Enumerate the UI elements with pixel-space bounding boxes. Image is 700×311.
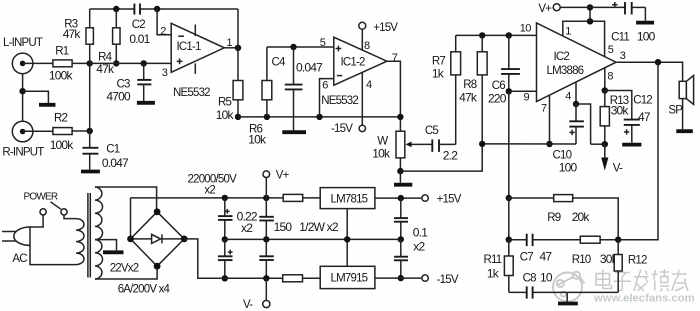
IC1-2 minus sign [337,75,342,77]
svg-text:1/2W x2: 1/2W x2 [299,220,339,234]
wire mid row left [509,239,527,241]
wire C5 to R7 [455,75,457,144]
IC1-1 plus sign [177,58,183,64]
watermark glyph fa [634,270,649,292]
node feedback top [506,195,512,201]
ground C4 [282,130,306,134]
node mid rail 0.1 [398,236,404,242]
capacitor C10 [569,104,584,144]
node pin4 [573,101,579,107]
bridge diode [131,234,185,243]
capacitor C12 [605,91,640,143]
svg-text:C8: C8 [523,272,537,284]
wire IC1-2 output [387,61,401,131]
node C4 top [290,44,296,50]
node bridge top [154,208,161,215]
svg-text:R10: R10 [572,254,591,266]
switch S1 [30,202,76,227]
wire secondary bottom to bridge [95,266,157,279]
svg-text:7: 7 [541,103,547,115]
wire sleeve to ground [23,91,49,103]
svg-text:1k: 1k [432,67,445,81]
capacitor C7 [527,234,533,246]
junction pin2 tap [154,6,160,12]
svg-text:V-: V- [243,299,253,311]
regulator LM7915 [320,266,375,288]
resistor R7 [451,35,461,75]
svg-text:10: 10 [540,270,553,284]
capacitor C1 [83,131,99,170]
node 0.22 top [263,195,269,201]
svg-text:AC: AC [12,253,27,265]
svg-text:4700: 4700 [106,90,131,104]
node R5 bottom [235,114,241,120]
svg-text:10k: 10k [372,146,391,160]
node R8 bottom [479,141,485,147]
V- terminal PSU [263,278,270,307]
capacitor C8 [527,286,533,298]
svg-text:C2: C2 [132,19,146,31]
transformer core [88,193,90,278]
node IC1-1 output [235,45,241,51]
svg-text:100: 100 [559,160,578,174]
svg-text:47: 47 [540,249,553,263]
svg-text:6: 6 [322,80,328,92]
V+ terminal PSU [263,171,270,198]
wire pin8 [604,68,606,91]
wire pin1 pin5 top [563,21,605,56]
svg-text:0.047: 0.047 [296,60,323,74]
capacitor 0.22 lower [259,239,274,278]
wire V- net right [591,143,605,145]
node V- 0.1 [398,275,404,281]
watermark glyph zi [614,273,631,291]
node V- arrow [602,141,608,147]
wire jack to R2 [23,130,53,132]
svg-text:L-INPUT: L-INPUT [3,37,43,49]
wire R2 to node B [72,130,90,132]
-15V terminal IC1-2 pin4 [359,72,365,131]
svg-text:-15V: -15V [331,123,353,135]
node output [655,59,661,65]
wire input row to pin3 [90,62,171,64]
ground SP [676,129,693,133]
wire pin9 [509,90,537,92]
+15V terminal IC1-2 pin8 [359,22,366,50]
wire L jack sleeve down [22,74,24,92]
wire sleeve to R jack [22,91,24,121]
svg-text:1: 1 [565,26,571,38]
wire feedback up [237,9,239,48]
svg-text:x2: x2 [204,185,215,197]
svg-text:2.2: 2.2 [443,148,458,162]
op-amp IC1-1 [171,23,224,72]
svg-text:C12: C12 [633,95,652,107]
svg-text:+15V: +15V [437,194,462,206]
wire bottom row left [509,291,527,293]
wire feedback top left [90,8,135,10]
wire regulators common [346,209,348,267]
watermark logo [553,272,585,302]
node W ground [397,168,403,174]
ground C12 [622,143,641,147]
node V- rail 0.22 [263,275,269,281]
wire feedback drop [508,91,510,198]
svg-text:1k: 1k [487,267,500,281]
node bridge right [181,236,188,243]
resistor R6 [262,47,272,117]
C11 plus sign [612,2,617,7]
resistor R3 [86,9,93,63]
svg-text:47k: 47k [459,90,478,104]
svg-text:C1: C1 [106,143,120,155]
node C3 top [141,60,147,66]
node mid rail 22000 [222,236,228,242]
wire V- rail [225,277,283,279]
svg-text:R2: R2 [54,113,68,125]
wire R1 to node A [72,62,90,64]
ground centre tap [103,250,124,254]
node pin6 tap [316,114,322,120]
-15V terminal PSU [422,275,428,281]
svg-text:C5: C5 [425,125,439,137]
svg-text:5: 5 [320,37,326,49]
junction R4 top [113,6,119,12]
svg-text:30k: 30k [611,104,630,118]
wire output feedback [618,62,658,240]
node pin9 [506,88,512,94]
node R11 top [506,237,512,243]
V+ terminal [553,4,560,11]
svg-text:100k: 100k [50,138,75,152]
svg-text:x2: x2 [241,221,253,235]
wire bottom row right [533,291,619,293]
watermark glyph shao [652,269,670,291]
svg-text:47: 47 [638,110,651,124]
connector J1 L-INPUT [12,53,33,74]
resistor R9 [554,195,573,202]
svg-text:3: 3 [162,67,168,79]
node mid rail 0.22 [263,236,269,242]
transformer T1 primary [76,219,84,265]
node bridge left [127,236,134,243]
resistor R13 [600,91,609,145]
ground C3 [137,101,155,105]
svg-text:R-INPUT: R-INPUT [2,147,44,159]
node R8 top [479,32,485,38]
svg-text:IC1-2: IC1-2 [341,57,366,69]
IC1-1 minus sign [178,35,184,37]
svg-text:150: 150 [274,220,293,234]
C10 plus sign [569,130,574,135]
svg-text:SP: SP [668,105,683,117]
svg-text:0.1: 0.1 [413,225,428,239]
svg-text:C11: C11 [611,31,629,43]
svg-text:NE5532: NE5532 [173,87,210,99]
ground C1 [81,170,100,174]
svg-text:R12: R12 [628,254,647,266]
V- arrow [601,144,608,170]
svg-text:8: 8 [364,40,370,52]
node C6 top [506,32,512,38]
svg-text:100: 100 [637,29,656,43]
svg-text:4: 4 [565,91,571,103]
resistor R8 [477,35,487,143]
node A junction R1/R3 [87,60,93,66]
node R4 bottom [113,60,119,66]
ground W [394,171,412,185]
wire bridge right to V- rail [184,239,225,278]
ground feedback [558,292,578,303]
wire V+ rail [131,197,284,199]
wire node A to node B [89,63,91,131]
node common mid rail [344,236,350,242]
resistor 150 lower [283,275,321,282]
svg-text:2: 2 [160,26,166,38]
wire IC1-1 output [224,47,238,49]
svg-text:LM3886: LM3886 [547,65,584,77]
IC1-1 power tick top [194,25,196,36]
ground input [39,103,56,107]
resistor R12 [614,240,622,293]
svg-text:V+: V+ [276,169,290,181]
speaker SP [679,76,693,130]
svg-text:5: 5 [608,44,614,56]
connector J2 R-INPUT [12,121,33,142]
wire V+ tap up [589,7,591,21]
capacitor 0.1 lower [394,239,408,278]
capacitor C5 [432,139,455,152]
svg-text:220: 220 [488,92,507,106]
capacitor C6 [501,35,520,91]
wire pin7 [549,95,551,144]
wire inverting row [238,116,400,118]
wire jack to R1 [23,62,53,64]
svg-text:C4: C4 [272,57,287,69]
wire LM7915 out [375,277,422,279]
wire feedback top right [140,8,238,10]
resistor R4 [113,9,120,63]
svg-text:x2: x2 [413,240,425,254]
resistor 150 upper [283,194,320,201]
power amp IC2 [537,23,617,102]
svg-text:V-: V- [613,162,623,174]
IC1-2 plus sign [336,46,342,52]
svg-text:www.elecfans.com: www.elecfans.com [593,293,695,305]
capacitor 22000 upper [218,198,233,240]
wire mid row [533,239,581,241]
capacitor C3 [137,63,151,101]
22000 lower plus sign [228,250,233,255]
svg-text:10k: 10k [248,133,267,147]
svg-text:C3: C3 [117,78,131,90]
ground C11 [636,21,654,25]
node V+ rail [587,4,593,10]
resistor R2 [53,128,72,135]
capacitor C11 [625,2,645,21]
node pin7 [546,141,552,147]
wire mid rail [225,238,401,240]
svg-text:10: 10 [520,23,532,35]
wire W node to R8 bottom [400,144,482,171]
capacitor 0.1 upper [394,198,408,239]
svg-text:R11: R11 [484,254,502,266]
svg-text:3: 3 [620,50,626,62]
capacitor C2 [134,4,140,15]
svg-text:0.01: 0.01 [129,32,150,46]
wire pin6 [320,79,334,117]
node 22000 top [222,195,228,201]
svg-text:IC2: IC2 [554,51,570,63]
wire R10 to node [600,239,618,241]
svg-text:R5: R5 [218,96,232,108]
node bridge bottom [154,263,161,270]
svg-text:LM7815: LM7815 [331,194,368,206]
svg-text:R9: R9 [547,212,561,224]
svg-text:47k: 47k [63,27,82,41]
svg-text:IC1-1: IC1-1 [177,41,202,53]
node B junction R2/C1 [87,128,93,134]
node V+ tap [587,18,593,24]
svg-text:R8: R8 [463,79,477,91]
svg-text:7: 7 [392,52,398,64]
svg-text:4: 4 [366,79,372,91]
wire bridge left to V+ rail [130,198,132,239]
node pin8 [602,87,608,93]
+15V terminal PSU [422,195,428,201]
capacitor 22000 lower [218,239,233,278]
wire V- net left [482,143,576,145]
C12 plus sign [624,129,629,134]
wire feedback node down [508,198,510,240]
22000 upper plus sign [225,209,230,214]
wire R9 to corner [573,198,619,240]
svg-text:6A/200V x4: 6A/200V x4 [118,283,171,295]
op-amp IC1-2 [334,37,387,85]
svg-text:22Vx2: 22Vx2 [110,262,139,274]
wire pin4 [575,82,577,104]
transformer T1 secondary [95,187,103,279]
bridge rectifier [131,212,185,266]
svg-text:-15V: -15V [437,274,459,286]
resistor R10 [580,236,600,243]
AC plug [2,227,30,245]
wire LM7815 out [375,197,422,199]
resistor R11 [504,240,513,293]
node 0.1 top [398,195,404,201]
node R6 bottom [264,114,270,120]
wire pin5 row [267,46,334,48]
svg-text:C6: C6 [492,80,506,92]
node V- rail 22000 [222,275,228,281]
svg-text:0.047: 0.047 [102,156,129,170]
svg-text:20k: 20k [572,210,591,224]
resistor R1 [53,60,72,67]
svg-text:100k: 100k [49,69,74,83]
svg-text:22000/50V: 22000/50V [188,173,238,185]
svg-text:8: 8 [607,71,613,83]
svg-text:LM7915: LM7915 [331,273,368,285]
wire V+ rail [560,6,625,8]
svg-text:NE5532: NE5532 [321,95,358,107]
wire to R9 [509,197,554,199]
potentiometer W [396,131,432,158]
svg-text:C7: C7 [520,251,534,263]
watermark glyph you [672,270,688,291]
resistor R5 [233,48,243,117]
wire pin2 [157,9,171,35]
IC1-1 power tick bottom [194,63,196,74]
capacitor 0.22 upper [259,198,274,240]
svg-text:9: 9 [524,91,530,103]
wire IC2 output to speaker [616,62,683,81]
wire W bottom [399,158,401,171]
capacitor C4 [285,47,303,130]
wire pin4 bypass [576,104,591,144]
node R12 top [615,237,621,243]
svg-text:R1: R1 [55,45,69,57]
svg-text:POWER: POWER [24,192,58,203]
wire secondary top to bridge [95,187,157,212]
wire pin10 row [456,34,537,36]
node output feedback [397,114,403,120]
regulator LM7815 [320,188,375,209]
watermark glyph dian [596,270,612,289]
junction sleeve node [19,88,25,94]
wire plug bottom [30,245,76,264]
svg-text:V+: V+ [538,3,552,15]
svg-text:10k: 10k [216,108,235,122]
svg-text:+15V: +15V [373,22,398,34]
secondary centre tap [95,240,117,251]
